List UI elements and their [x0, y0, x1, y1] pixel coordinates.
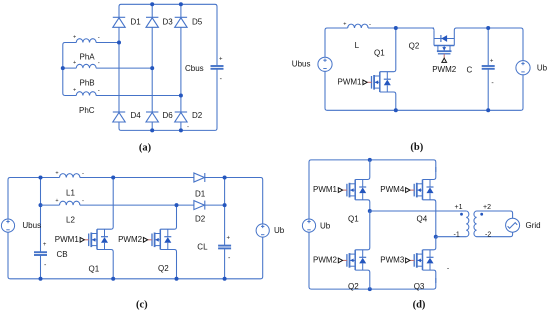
svg-text:-: - [220, 76, 223, 83]
svg-text:PWM3: PWM3 [380, 256, 405, 265]
svg-text:+: + [73, 87, 76, 93]
svg-text:(d): (d) [413, 300, 426, 311]
svg-text:PWM2: PWM2 [313, 256, 338, 265]
svg-text:+: + [343, 22, 346, 28]
svg-text:D2: D2 [195, 214, 206, 223]
svg-text:D5: D5 [192, 18, 203, 27]
svg-text:PhC: PhC [79, 106, 95, 115]
svg-text:PWM4: PWM4 [380, 185, 405, 194]
svg-text:+: + [55, 198, 58, 204]
svg-text:+2: +2 [483, 204, 491, 211]
svg-text:Q1: Q1 [348, 214, 359, 223]
svg-text:L: L [355, 41, 360, 50]
svg-text:Ub: Ub [537, 63, 548, 72]
svg-text:L2: L2 [66, 215, 75, 224]
svg-text:+: + [73, 60, 76, 66]
svg-text:Q2: Q2 [158, 264, 169, 273]
svg-text:Q4: Q4 [417, 214, 428, 223]
svg-text:Ubus: Ubus [22, 221, 41, 230]
svg-text:-: - [98, 61, 100, 67]
svg-text:(b): (b) [410, 142, 423, 153]
svg-text:-: - [98, 35, 100, 41]
svg-text:-: - [44, 262, 47, 269]
svg-text:+: + [55, 171, 58, 177]
svg-text:PWM1: PWM1 [338, 78, 363, 87]
svg-text:-: - [369, 22, 371, 28]
svg-text:PhA: PhA [80, 53, 96, 62]
svg-text:-2: -2 [485, 231, 491, 238]
svg-text:PhB: PhB [80, 79, 95, 88]
svg-text:-: - [98, 88, 100, 94]
svg-text:Ubus: Ubus [292, 59, 311, 68]
svg-text:D1: D1 [195, 190, 206, 199]
svg-text:PWM1: PWM1 [55, 235, 80, 244]
svg-text:+: + [43, 242, 47, 248]
svg-text:Grid: Grid [526, 221, 541, 230]
svg-text:Q3: Q3 [414, 282, 425, 291]
svg-text:PWM2: PWM2 [118, 235, 143, 244]
svg-text:+: + [490, 58, 494, 64]
svg-text:Cbus: Cbus [185, 64, 204, 73]
svg-text:PWM2: PWM2 [432, 65, 457, 74]
svg-text:D6: D6 [163, 111, 174, 120]
svg-text:-: - [82, 199, 84, 205]
svg-text:Q1: Q1 [374, 49, 385, 58]
svg-text:-: - [82, 171, 84, 177]
svg-text:Q1: Q1 [89, 265, 100, 274]
svg-text:C: C [467, 66, 473, 75]
svg-text:D2: D2 [192, 111, 203, 120]
svg-text:Q2: Q2 [348, 282, 359, 291]
svg-text:+: + [73, 34, 76, 40]
svg-text:-1: -1 [454, 231, 460, 238]
svg-text:CB: CB [57, 250, 68, 259]
svg-text:L1: L1 [66, 189, 75, 198]
svg-text:Ub: Ub [274, 226, 285, 235]
svg-text:-: - [228, 255, 231, 262]
svg-text:+: + [226, 235, 230, 241]
svg-text:-: - [187, 125, 189, 131]
svg-text:(c): (c) [136, 300, 148, 311]
svg-text:(a): (a) [139, 143, 152, 154]
svg-text:-: - [491, 80, 494, 87]
svg-text:D3: D3 [163, 18, 174, 27]
svg-text:PWM1: PWM1 [313, 185, 338, 194]
svg-text:D4: D4 [131, 111, 142, 120]
svg-text:+: + [219, 56, 223, 62]
svg-text:D1: D1 [131, 18, 142, 27]
svg-text:Q2: Q2 [409, 41, 420, 50]
svg-text:-: - [447, 266, 450, 273]
svg-text:CL: CL [197, 243, 208, 252]
svg-text:+1: +1 [455, 204, 463, 211]
svg-text:Ub: Ub [320, 222, 331, 231]
